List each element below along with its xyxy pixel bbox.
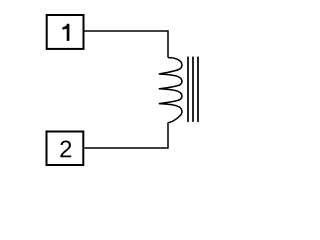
- core bar 2: [192, 57, 194, 122]
- pin label 2: [60, 141, 71, 158]
- wire from coil bottom to box 2: [85, 122, 169, 148]
- wire from box 1 to coil top: [85, 31, 169, 57]
- pin label 1: [62, 24, 69, 41]
- core bar 3: [197, 57, 199, 122]
- terminal box 1: [47, 15, 84, 49]
- inductor L1 coil: [159, 57, 182, 123]
- core bar 1: [187, 57, 189, 122]
- terminal box 2: [47, 132, 84, 166]
